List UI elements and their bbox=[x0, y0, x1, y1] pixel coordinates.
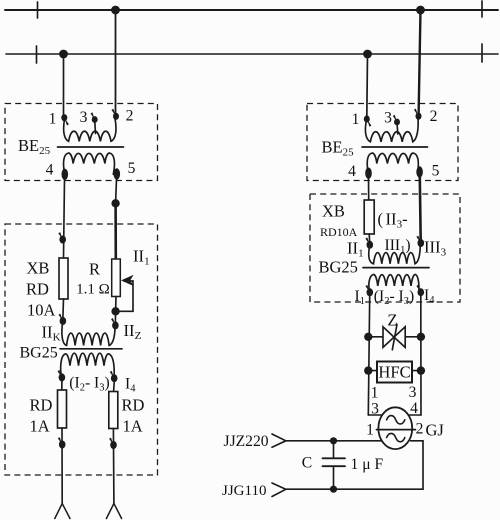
wire R to wiper node bbox=[115, 297, 117, 312]
svg-text:BG25: BG25 bbox=[319, 258, 358, 277]
wire L2 to BE25-right pin1 bbox=[366, 54, 369, 118]
wire JJG110 to right branch bbox=[286, 488, 423, 490]
svg-text:RD10A: RD10A bbox=[320, 225, 358, 239]
BE25-left pin1 polarity dot bbox=[61, 114, 67, 121]
tick mark L2 right bbox=[481, 44, 483, 62]
capacitor C top lead bbox=[333, 441, 335, 459]
svg-text:BE25: BE25 bbox=[322, 138, 355, 159]
svg-text:I4: I4 bbox=[424, 287, 435, 306]
fuse XB left body bbox=[59, 258, 68, 299]
svg-text:XB: XB bbox=[322, 202, 345, 221]
transformer BE25-left primary winding bbox=[64, 117, 116, 141]
svg-text:III1): III1) bbox=[385, 237, 411, 256]
surge suppressor Z link wire bbox=[368, 336, 421, 338]
svg-text:II1: II1 bbox=[347, 239, 364, 260]
transformer BE25-right secondary winding bbox=[367, 153, 418, 173]
wire fuse XB to winding IIk bbox=[62, 299, 65, 318]
fuse RD 1A right body bbox=[109, 392, 118, 429]
BG25-right I4 terminal mark bbox=[418, 288, 425, 296]
relay HFC body bbox=[377, 362, 412, 383]
svg-text:RD: RD bbox=[26, 280, 49, 299]
svg-text:3: 3 bbox=[80, 109, 88, 126]
junction dot Z right bbox=[417, 333, 425, 341]
BG25-left terminal IIz polarity mark bbox=[112, 321, 119, 329]
svg-text:2: 2 bbox=[126, 108, 134, 125]
relay GJ body circle bbox=[378, 407, 412, 449]
capacitor C top plate bbox=[323, 457, 346, 459]
output arrow terminal left bbox=[55, 504, 70, 519]
svg-text:1: 1 bbox=[49, 111, 57, 128]
svg-text:RD: RD bbox=[122, 396, 145, 415]
BG25-right II1 terminal mark bbox=[367, 241, 374, 249]
BG25-left core line bbox=[60, 348, 122, 350]
dashed box BE25 right bbox=[307, 104, 458, 181]
fuse XB right body bbox=[364, 200, 374, 234]
BE25-right pin4 terminal blob bbox=[365, 168, 372, 179]
svg-text:HFC: HFC bbox=[378, 363, 410, 382]
svg-text:10A: 10A bbox=[27, 301, 56, 320]
svg-text:BE25: BE25 bbox=[18, 136, 51, 157]
wire node to rheostat R (thick) bbox=[114, 203, 117, 259]
wire wiper node to winding IIz bbox=[114, 311, 116, 322]
wire L1 to BE25-right pin2 bbox=[419, 10, 421, 115]
wire to GJ pin3 bbox=[368, 414, 383, 416]
wire L2 to BE25-left pin1 bbox=[63, 54, 65, 116]
svg-text:5: 5 bbox=[432, 163, 440, 180]
svg-text:5: 5 bbox=[128, 160, 136, 177]
svg-text:GJ: GJ bbox=[426, 421, 445, 440]
svg-text:C: C bbox=[302, 455, 312, 472]
relay HFC link wire left bbox=[368, 370, 377, 372]
BE25-right pin3 polarity dot bbox=[394, 119, 400, 126]
junction dot above R bbox=[111, 199, 119, 207]
dashed box BE25 left bbox=[5, 104, 158, 181]
tick mark L1 left bbox=[37, 2, 39, 18]
BE25-left pin4 terminal blob bbox=[62, 169, 69, 180]
svg-text:1: 1 bbox=[371, 385, 379, 402]
BG25-right core line bbox=[363, 267, 429, 269]
transformer BG25-right secondary winding bbox=[369, 274, 419, 292]
BG25-right III3 terminal mark bbox=[418, 239, 425, 247]
BE25-left core line bbox=[58, 146, 124, 148]
junction dot JJZ220/C bbox=[330, 437, 337, 444]
wire BE25-left pin5 to node bbox=[115, 179, 118, 203]
terminal mark below right fuse bbox=[110, 441, 117, 449]
GJ upper sine symbol bbox=[387, 416, 405, 424]
BE25-left pin3 tap wire bbox=[94, 120, 97, 134]
junction dot Z left bbox=[364, 333, 372, 341]
wire BG25-left to fuse RD1A right bbox=[113, 382, 116, 392]
wire I1 terminal down to HFC branch left bbox=[368, 296, 369, 415]
BE25-right pin1 polarity dot bbox=[364, 115, 370, 122]
wire JJZ220 to GJ bbox=[286, 440, 382, 442]
svg-text:Z: Z bbox=[387, 311, 397, 330]
input chevron JJG110 bbox=[272, 483, 286, 497]
svg-text:(I2- I3): (I2- I3) bbox=[374, 288, 414, 307]
relay GJ center line bbox=[377, 429, 416, 431]
junction dot L2/right branch bbox=[364, 50, 371, 57]
svg-text:I4: I4 bbox=[125, 376, 136, 395]
svg-text:I1: I1 bbox=[355, 288, 365, 307]
polarity mark above fuse XB bbox=[58, 232, 66, 243]
fuse RD 1A left body bbox=[58, 390, 67, 428]
terminal mark below left fuse bbox=[59, 441, 66, 449]
wire I4 terminal down to HFC branch right bbox=[420, 296, 422, 415]
BG25-left lower-right terminal mark bbox=[111, 374, 118, 382]
svg-text:XB: XB bbox=[27, 259, 50, 278]
BE25-right core line bbox=[362, 146, 428, 148]
wire BG25-left to fuse RD1A left bbox=[61, 381, 63, 390]
transformer BE25-left secondary winding bbox=[64, 153, 115, 174]
BE25-right pin3 tap wire bbox=[396, 123, 399, 135]
BE25-right pin5 terminal blob bbox=[416, 166, 423, 177]
svg-text:R: R bbox=[89, 260, 100, 279]
transformer BE25-right primary winding bbox=[365, 117, 418, 142]
svg-text:4: 4 bbox=[348, 163, 356, 180]
junction dot HFC left bbox=[364, 366, 372, 374]
wire fuse to II1 terminal bbox=[368, 234, 371, 243]
wire BE25-right pin5 to III3 terminal (thick) bbox=[418, 177, 422, 242]
junction dot L1/left branch bbox=[112, 6, 119, 13]
svg-text:3: 3 bbox=[384, 110, 392, 127]
svg-text:IIZ: IIZ bbox=[124, 321, 142, 342]
rheostat R body bbox=[112, 259, 121, 297]
svg-text:JJG110: JJG110 bbox=[222, 483, 266, 499]
dashed box left lower bbox=[5, 224, 158, 475]
bus line L1 bbox=[5, 9, 498, 11]
transformer BG25-left secondary winding bbox=[61, 353, 115, 378]
svg-text:(I2- I3): (I2- I3) bbox=[69, 375, 109, 394]
bus line L2 bbox=[6, 53, 498, 55]
svg-text:1A: 1A bbox=[30, 417, 50, 436]
BG25-left terminal IIk polarity mark bbox=[60, 317, 67, 325]
svg-text:RD: RD bbox=[30, 396, 53, 415]
junction dot HFC right bbox=[417, 366, 425, 374]
svg-text:3: 3 bbox=[409, 384, 417, 401]
svg-text:JJZ220: JJZ220 bbox=[224, 433, 269, 450]
svg-text:II1: II1 bbox=[133, 247, 150, 268]
wire fuse to bottom terminal right bbox=[112, 429, 115, 504]
svg-text:IIK: IIK bbox=[42, 323, 61, 344]
tick mark L1 right bbox=[481, 1, 483, 17]
R wiper arm bbox=[116, 281, 133, 311]
BG25-right I1 terminal mark bbox=[367, 288, 374, 296]
R wiper arrowhead bbox=[121, 275, 134, 286]
BE25-left pin5 terminal blob bbox=[114, 168, 121, 179]
GJ lower sine symbol bbox=[387, 433, 405, 441]
svg-text:BG25: BG25 bbox=[20, 345, 58, 362]
capacitor C bottom plate bbox=[323, 465, 346, 467]
BG25-left lower-left terminal mark bbox=[59, 373, 66, 381]
transformer BG25-right primary winding bbox=[369, 243, 420, 263]
tick mark L2 left bbox=[36, 46, 38, 63]
svg-text:1A: 1A bbox=[123, 417, 143, 436]
wire BE25-right pin4 to fuse XB right bbox=[368, 178, 370, 200]
svg-text:1 μ F: 1 μ F bbox=[351, 456, 384, 473]
junction dot below R bbox=[111, 307, 119, 315]
svg-text:III3: III3 bbox=[424, 238, 447, 259]
svg-text:2: 2 bbox=[430, 108, 438, 125]
svg-text:(II3-: (II3- bbox=[378, 210, 408, 231]
transformer BG25-left primary winding bbox=[62, 321, 115, 345]
BE25-left pin2 polarity dot bbox=[113, 113, 119, 120]
suppressor Z left triangle bbox=[383, 327, 394, 348]
suppressor Z center bar bbox=[392, 324, 397, 349]
wire L1 to BE25-left pin2 bbox=[115, 10, 117, 115]
svg-text:1.1 Ω: 1.1 Ω bbox=[76, 282, 110, 298]
dashed box right lower bbox=[310, 194, 460, 302]
capacitor C bottom lead bbox=[333, 466, 335, 489]
wire GJ right to down branch bbox=[411, 441, 424, 489]
suppressor Z right triangle bbox=[394, 327, 405, 348]
svg-text:1: 1 bbox=[366, 422, 374, 439]
input chevron JJZ220 bbox=[272, 434, 286, 447]
BE25-left pin3 polarity dot bbox=[92, 116, 98, 123]
svg-text:1: 1 bbox=[352, 111, 360, 128]
wire BE25-left pin4 to fuse XB bbox=[64, 179, 65, 258]
junction dot L2/left branch bbox=[60, 50, 67, 57]
svg-text:2: 2 bbox=[416, 421, 424, 438]
relay HFC link wire right bbox=[412, 370, 421, 372]
output arrow terminal right bbox=[106, 504, 121, 519]
BE25-right pin2 polarity dot bbox=[416, 113, 422, 120]
svg-text:4: 4 bbox=[46, 162, 54, 179]
wire fuse to bottom terminal left bbox=[61, 428, 63, 504]
wire to GJ pin4 bbox=[409, 414, 422, 416]
junction dot JJG110/C bbox=[330, 486, 337, 493]
junction dot L1/right branch bbox=[417, 6, 424, 13]
